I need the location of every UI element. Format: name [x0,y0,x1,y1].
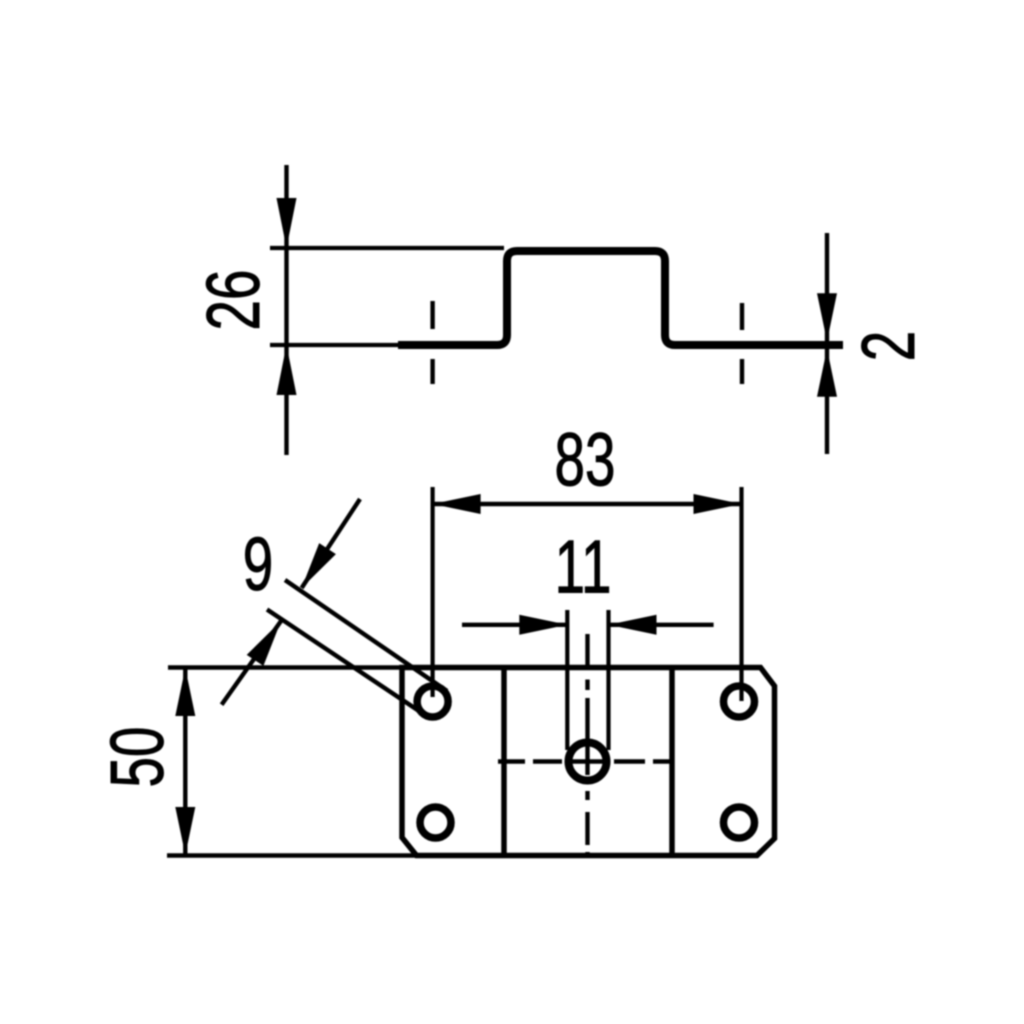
svg-text:50: 50 [96,727,179,788]
svg-text:83: 83 [555,418,616,501]
svg-text:9: 9 [243,523,273,606]
svg-text:2: 2 [847,331,930,361]
svg-text:11: 11 [555,525,612,608]
svg-text:26: 26 [192,270,275,331]
